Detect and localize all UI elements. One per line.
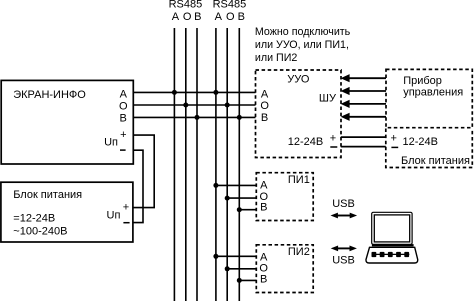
junction bus2-A / wire A bbox=[213, 90, 218, 95]
svg-text:O: O bbox=[226, 11, 235, 23]
svg-text:+: + bbox=[123, 202, 129, 214]
laptop screen inner bbox=[374, 215, 409, 242]
wire O: bus2 to PI1 bbox=[227, 197, 256, 199]
wire power plus: UUO to power supply (right) bbox=[341, 136, 386, 138]
svg-text:B: B bbox=[260, 273, 267, 285]
junction bus2-O / PI1 O bbox=[225, 196, 230, 201]
svg-text:O: O bbox=[183, 11, 192, 23]
wire bus1-O vertical bbox=[185, 28, 187, 301]
svg-text:управления: управления bbox=[403, 87, 463, 99]
pin label minus (EKRAN-INFO Up minus) bbox=[120, 149, 126, 151]
wire B: bus2 to PI1 bbox=[239, 209, 256, 211]
svg-text:B: B bbox=[260, 202, 267, 214]
svg-text:Блок питания: Блок питания bbox=[13, 189, 82, 201]
junction bus2-B / PI1 B bbox=[237, 207, 242, 212]
laptop screen outer bbox=[372, 212, 412, 244]
block power supply (left) box bbox=[1, 182, 133, 242]
svg-text:+: + bbox=[390, 133, 396, 145]
wire bus2-A vertical bbox=[215, 28, 217, 301]
block PI1 dashed box bbox=[256, 173, 313, 221]
arrow ShU 4 bbox=[341, 113, 386, 121]
junction bus1-A / wire A bbox=[172, 90, 177, 95]
wire O: bus2 to PI2 bbox=[227, 268, 256, 270]
svg-text:=12-24В: =12-24В bbox=[13, 213, 55, 225]
svg-text:ПИ1: ПИ1 bbox=[288, 174, 310, 186]
wire B: bus2 to PI2 bbox=[239, 279, 256, 281]
svg-text:Прибор: Прибор bbox=[403, 75, 442, 87]
wire A: bus2 to PI1 bbox=[216, 184, 256, 186]
arrow USB upper (double headed) bbox=[331, 213, 358, 219]
junction bus1-O / wire O bbox=[183, 103, 188, 108]
wire Up minus: EKRAN-INFO to power supply bbox=[133, 150, 143, 222]
svg-text:B: B bbox=[194, 11, 201, 23]
svg-text:ЭКРАН-ИНФО: ЭКРАН-ИНФО bbox=[13, 89, 86, 101]
svg-text:A: A bbox=[261, 88, 269, 100]
junction bus2-B / wire B bbox=[237, 115, 242, 120]
svg-text:~100-240В: ~100-240В bbox=[13, 225, 67, 237]
svg-text:USB: USB bbox=[332, 198, 355, 210]
svg-text:O: O bbox=[260, 100, 269, 112]
svg-text:12-24В: 12-24В bbox=[288, 136, 323, 148]
svg-text:B: B bbox=[238, 11, 245, 23]
junction bus2-O / wire O bbox=[225, 103, 230, 108]
svg-text:B: B bbox=[119, 112, 126, 124]
laptop screen bottom bar bbox=[372, 244, 414, 246]
laptop key 5 bbox=[404, 252, 409, 257]
svg-text:12-24В: 12-24В bbox=[403, 136, 438, 148]
laptop key 3 bbox=[388, 252, 393, 257]
block control device dashed box bbox=[386, 69, 472, 127]
arrow ShU 3 bbox=[341, 100, 386, 108]
wire Up plus: EKRAN-INFO to power supply bbox=[133, 135, 154, 208]
laptop key 4 bbox=[396, 252, 401, 257]
svg-text:RS485: RS485 bbox=[169, 0, 203, 10]
svg-text:или УУО, или ПИ1,: или УУО, или ПИ1, bbox=[255, 39, 349, 51]
svg-text:A: A bbox=[215, 11, 223, 23]
svg-text:A: A bbox=[172, 11, 180, 23]
junction bus1-B / wire B bbox=[195, 115, 200, 120]
laptop icon bbox=[366, 212, 418, 263]
junction bus2-A / PI1 A bbox=[213, 183, 218, 188]
wire power minus: UUO to power supply (right) bbox=[341, 146, 386, 148]
wire A: EKRAN-INFO to UUO bbox=[133, 91, 256, 93]
svg-text:Uп: Uп bbox=[107, 209, 121, 221]
arrow ShU 1 bbox=[341, 74, 386, 82]
wire bus2-O vertical bbox=[226, 28, 228, 301]
svg-text:A: A bbox=[120, 88, 128, 100]
junction bus2-A / PI2 A bbox=[213, 254, 218, 259]
wire bus2-B vertical bbox=[238, 28, 240, 301]
svg-text:или ПИ2: или ПИ2 bbox=[255, 52, 298, 64]
arrow ShU 2 bbox=[341, 87, 386, 95]
svg-text:O: O bbox=[119, 101, 128, 113]
block PI2 dashed box bbox=[256, 245, 313, 293]
arrow USB lower (double headed) bbox=[331, 246, 357, 252]
svg-text:RS485: RS485 bbox=[213, 0, 247, 10]
svg-text:USB: USB bbox=[332, 254, 355, 266]
wire B: EKRAN-INFO to UUO bbox=[133, 116, 256, 118]
svg-text:Блок питания: Блок питания bbox=[401, 155, 470, 167]
svg-text:ШУ: ШУ bbox=[319, 93, 337, 105]
junction bus2-O / PI2 O bbox=[225, 266, 230, 271]
svg-text:ПИ2: ПИ2 bbox=[288, 246, 310, 258]
laptop keys row line bbox=[372, 253, 409, 255]
svg-text:Можно подключить: Можно подключить bbox=[255, 26, 351, 38]
block power supply (right) dashed box bbox=[386, 129, 473, 168]
svg-text:УУО: УУО bbox=[287, 74, 310, 86]
wire bus1-A vertical bbox=[173, 28, 175, 301]
svg-text:A: A bbox=[260, 180, 268, 192]
svg-text:B: B bbox=[261, 112, 268, 124]
pin label minus (power supply) bbox=[123, 222, 129, 224]
block UUO dashed box bbox=[256, 70, 342, 158]
svg-text:+: + bbox=[330, 133, 336, 145]
wire O: EKRAN-INFO to UUO bbox=[133, 104, 256, 106]
laptop key 2 bbox=[380, 252, 385, 257]
wire bus1-B vertical bbox=[196, 28, 198, 301]
laptop base bbox=[366, 247, 418, 263]
wire A: bus2 to PI2 bbox=[216, 255, 256, 257]
junction bus2-B / PI2 B bbox=[237, 278, 242, 283]
svg-text:+: + bbox=[120, 129, 126, 141]
laptop key 1 bbox=[372, 252, 377, 257]
block EKRAN-INFO box bbox=[1, 80, 133, 164]
pin label minus (UUO) bbox=[330, 146, 337, 148]
svg-text:Uп: Uп bbox=[104, 136, 118, 148]
pin label minus (power supply right) bbox=[391, 146, 398, 148]
